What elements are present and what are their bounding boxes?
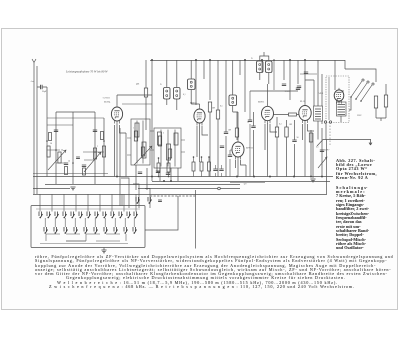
trimmer arrow 3 — [134, 146, 152, 165]
svg-text:50: 50 — [50, 143, 52, 145]
wire HT drop x226 — [225, 60, 227, 94]
wire mains right — [376, 84, 386, 121]
wire L6 leads — [232, 60, 234, 112]
tube V2 EBF11 — [194, 107, 205, 126]
wire R3 leads — [145, 60, 147, 130]
antenna — [32, 59, 36, 194]
wire bus y173 left — [33, 173, 108, 175]
coil L8 inner winding b — [167, 144, 171, 160]
svg-text:Fi: Fi — [251, 58, 253, 60]
wire bus y188 left — [33, 188, 70, 190]
wire y183 stub — [230, 182, 265, 184]
capacitor C9 — [224, 132, 228, 134]
resistor R19 — [192, 162, 195, 171]
capacitor C20 — [282, 84, 286, 86]
wire HT drop x218 — [217, 60, 219, 100]
svg-text:+0,7Veff: +0,7Veff — [102, 97, 110, 100]
svg-text:a: a — [97, 146, 98, 148]
resistor R17 — [157, 163, 160, 172]
wire V2 cathode down — [199, 126, 201, 163]
coil L1 — [47, 146, 50, 157]
resistor R18 — [167, 163, 170, 172]
wire HT drop x298 — [297, 60, 299, 84]
wire C15 C16 leads — [216, 165, 222, 177]
junction dots bus — [236, 176, 238, 178]
capacitor C7 — [156, 171, 160, 173]
capacitor C8 — [166, 173, 170, 175]
wire left vert x73 — [72, 112, 74, 184]
IF coil L5 — [188, 79, 196, 90]
wire HT drop x335 — [334, 60, 336, 76]
speaker terminals — [324, 121, 326, 123]
svg-text:AZ11: AZ11 — [318, 92, 324, 95]
wire box right path — [145, 196, 178, 230]
resistor R1 — [65, 167, 68, 175]
output transformer Tr2 — [314, 106, 323, 121]
wire below box — [66, 241, 104, 250]
capacitor C4 — [54, 130, 58, 132]
resistor R9 — [216, 110, 219, 119]
capacitor C10 — [220, 146, 224, 148]
wire long vert x152 — [151, 110, 153, 181]
wire Tr2 top — [314, 60, 322, 106]
capacitor C14 — [297, 86, 301, 88]
resistor R23 — [101, 132, 104, 140]
resistor R8 — [208, 102, 211, 112]
resistor R5 — [141, 147, 144, 156]
wire x226 — [225, 94, 227, 177]
wire left vert x104 — [103, 118, 105, 177]
wire bus y188 right — [220, 188, 240, 190]
power transformer Tr1 — [337, 102, 347, 116]
tube V6 AZ11 — [334, 88, 344, 104]
wire HT drop x274 — [273, 60, 275, 90]
svg-text:EBF11: EBF11 — [258, 102, 265, 104]
ground switch — [101, 250, 106, 253]
antenna coupling capacitor C1 — [41, 85, 43, 89]
band switch box outline — [31, 206, 145, 248]
capacitor C21 — [296, 88, 300, 90]
wire switch row links — [45, 218, 134, 227]
caption right column body — [336, 186, 380, 251]
svg-text:0,5: 0,5 — [220, 106, 223, 108]
wire under transformer — [318, 121, 326, 140]
IF transformer Fi1 coil a — [164, 88, 171, 100]
resistor R6 — [158, 136, 161, 146]
wire C22 lead — [230, 150, 232, 177]
resistor R15 mains — [374, 96, 377, 108]
wire V2 anode — [191, 104, 199, 107]
resistor R7 — [168, 149, 171, 158]
wire osc verts — [136, 165, 178, 190]
coil L3 — [93, 148, 96, 159]
wire left vert x95 — [94, 112, 96, 184]
svg-text:2M: 2M — [212, 108, 215, 110]
wire long vert x120 — [119, 128, 121, 206]
wire y74 link — [300, 73, 317, 75]
wire R13 leads — [274, 114, 299, 116]
capacitor C23 — [248, 120, 252, 122]
wire left vert x56 — [55, 112, 57, 184]
capacitor C24 — [304, 72, 308, 74]
svg-text:30pF: 30pF — [42, 91, 47, 93]
svg-text:2k: 2k — [61, 150, 63, 152]
resistor R2 — [83, 168, 86, 175]
capacitor C22 — [228, 155, 232, 157]
wire y91 link — [250, 91, 298, 100]
bottom caption block — [35, 255, 395, 289]
trimmer arrow 1 — [48, 150, 66, 170]
wire x250 down — [249, 124, 251, 177]
potentiometer arrow — [318, 157, 327, 168]
wire x218 — [217, 100, 219, 177]
capacitor C25 — [76, 157, 80, 159]
wire V2 pins — [197, 126, 208, 157]
resistor R10 — [235, 128, 238, 137]
capacitor C6 — [138, 172, 142, 174]
wire V1 pins — [115, 125, 127, 177]
tube V1 ECH4 — [111, 105, 122, 124]
wire V1 cathode down — [116, 124, 118, 177]
terminal jack — [218, 187, 221, 190]
wire top right link — [344, 60, 346, 69]
wire x286 — [286, 120, 288, 177]
resistor R16 mains — [384, 95, 387, 107]
wire bus y184 — [45, 184, 240, 186]
switch contact aux 2 — [148, 197, 152, 204]
svg-text:220V: 220V — [357, 115, 362, 117]
wire left link y118 — [47, 117, 104, 119]
coil L8 inner winding c — [174, 133, 178, 145]
ground right — [310, 179, 315, 182]
wire mains lead bus — [323, 139, 371, 141]
junction dots left — [55, 149, 57, 151]
svg-text:1: 1 — [133, 128, 134, 130]
tube V3 EFM11 — [232, 140, 244, 160]
wire x195 long — [195, 190, 197, 249]
wire x250 — [249, 91, 251, 120]
wire switch bottom links — [46, 234, 126, 241]
coil L7 inner winding b — [142, 142, 146, 158]
capacitor C15 — [213, 169, 217, 171]
caption right column title — [336, 159, 380, 181]
resistor R11 — [275, 127, 278, 137]
svg-text:ECH4: ECH4 — [104, 101, 111, 104]
wire left link y125 — [47, 124, 73, 126]
wire x294 — [294, 120, 296, 177]
capacitor C3 — [82, 165, 86, 167]
switch contacts row 2 — [44, 227, 48, 234]
IF transformer Fi1 coil b — [174, 88, 181, 100]
resistor R14 — [309, 133, 312, 142]
svg-text:0,1: 0,1 — [183, 94, 186, 96]
wire V3 side pins — [236, 160, 247, 177]
capacitor C26 — [158, 200, 162, 202]
wire bus y176 — [33, 176, 333, 178]
wire V3 bottom — [237, 160, 239, 177]
capacitor C11 — [292, 140, 296, 142]
wire V5 pins — [303, 124, 315, 140]
wire selector feed — [345, 69, 376, 110]
capacitor C5 — [93, 130, 97, 132]
svg-text:0,3: 0,3 — [279, 124, 282, 126]
svg-text:5k: 5k — [247, 122, 249, 124]
wire V1 anode — [117, 95, 152, 105]
power unit dotted box — [326, 76, 349, 123]
svg-text:+4V: +4V — [243, 184, 247, 186]
wire x313 down — [312, 133, 314, 178]
IF transformer Fi2 coil b — [266, 61, 273, 73]
svg-text:50: 50 — [297, 137, 299, 139]
wire screen feed V1 — [122, 103, 152, 105]
capacitor C13 — [320, 150, 324, 152]
resistor R4 — [134, 131, 137, 141]
junction dot x274 — [273, 59, 275, 61]
mechanical link — [150, 195, 196, 197]
switch contact aux 1 — [136, 197, 140, 204]
wire Fi1 leads — [167, 60, 177, 110]
wire HT drop x152 — [151, 60, 153, 110]
svg-text:Fi: Fi — [160, 84, 162, 86]
wire switch box top row — [36, 208, 140, 210]
switch contacts row 1 — [39, 212, 43, 219]
wire x237 link — [233, 112, 238, 140]
coil L2 — [58, 152, 61, 163]
wire bus y188 — [138, 188, 218, 190]
wire HT drop x210 — [209, 60, 211, 100]
wire left links2 — [47, 150, 104, 163]
resistor R21 — [208, 162, 211, 171]
coil box L7 — [131, 119, 150, 165]
svg-text:0,1: 0,1 — [316, 147, 319, 149]
wire x253 — [253, 112, 255, 177]
wire V6 to Tr1 — [335, 76, 343, 122]
coil L4 — [102, 146, 105, 157]
resistor R12 — [285, 127, 288, 137]
svg-text:Ant: Ant — [31, 80, 35, 83]
wire V4 anode — [267, 84, 269, 105]
IF transformer Fi2 coil a — [257, 61, 264, 73]
wire L5 leads — [190, 60, 192, 104]
wire mains diagonal — [317, 140, 323, 147]
wire HT bus — [150, 60, 345, 62]
wire V5 anode — [305, 80, 314, 104]
wire bus y181 — [152, 181, 330, 183]
wire box inner link — [96, 240, 120, 242]
capacitor C2 — [64, 163, 68, 165]
svg-text:Leistungsaufnahme 70 W bis 80: Leistungsaufnahme 70 W bis 80 W — [65, 70, 108, 74]
wire antenna lead 2 — [36, 66, 38, 194]
wire V4 cathode down — [267, 123, 269, 177]
wire x210 down — [209, 112, 211, 177]
IF coil L6 — [229, 95, 237, 106]
resistor R20 — [200, 162, 203, 171]
wire dotted link — [329, 123, 331, 147]
wire step wiring — [121, 178, 150, 208]
wire Fi2 leads — [260, 52, 269, 84]
wire bus y194 — [33, 194, 327, 196]
coil L7 inner winding a — [135, 123, 139, 137]
wire V4 pins — [265, 124, 277, 150]
wire V5 cathode down — [304, 123, 306, 177]
trimmer arrow 2 — [84, 152, 101, 172]
wire switch box bottom row — [40, 243, 128, 245]
resistor R22 — [49, 133, 52, 141]
wire x277 — [276, 117, 278, 177]
svg-text:3: 3 — [163, 133, 164, 135]
coil box L8 — [154, 128, 181, 168]
mains plug arrow — [369, 140, 372, 146]
wire V3 top — [237, 112, 239, 140]
resistor R13 coupling — [289, 113, 297, 116]
capacitor C12 — [251, 126, 255, 128]
tube V4 — [262, 104, 274, 123]
wire left link y112 — [56, 111, 95, 113]
ground left filter — [70, 187, 75, 190]
tube V5 EL11 — [299, 104, 311, 124]
coil L8 inner winding a — [158, 132, 162, 145]
wire HT drop x305 — [304, 60, 306, 80]
svg-text:468: 468 — [136, 84, 139, 86]
wire x311 — [310, 130, 312, 177]
wire box inner vert — [328, 77, 330, 120]
wire HT drop x196 — [195, 60, 197, 105]
svg-text:220V~: 220V~ — [324, 150, 331, 152]
wire HT drop x284 — [283, 60, 285, 80]
wire HT drop x290 — [289, 60, 291, 91]
wire cluster links — [159, 157, 210, 177]
wire HT drop x240 — [239, 60, 241, 75]
wire coil taps — [127, 131, 185, 155]
capacitor C16 — [219, 169, 223, 171]
junction dots clusters — [158, 176, 160, 178]
wire switch feeds — [40, 194, 136, 212]
wire left vert x47 — [46, 87, 48, 177]
junction dots HT bus — [195, 59, 197, 61]
wire x262 top — [261, 60, 263, 72]
wire HT drop x245 — [244, 60, 246, 112]
svg-text:1M: 1M — [228, 130, 231, 132]
mains voltage selector — [351, 81, 372, 101]
svg-text:5k: 5k — [68, 161, 70, 163]
svg-text:1M: 1M — [289, 124, 292, 126]
resistor R3 — [144, 88, 147, 97]
wire mains drop left — [326, 140, 328, 195]
wire x322 — [321, 128, 323, 177]
wire HT drop x204 — [203, 60, 205, 79]
